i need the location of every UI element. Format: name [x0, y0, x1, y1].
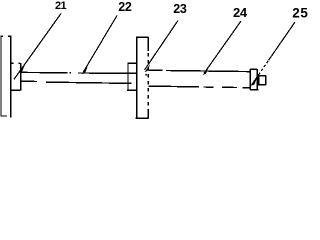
flange 23 right edge lower solid [147, 111, 149, 118]
end collar top edge [250, 68, 257, 70]
shaft 24 bottom edge [149, 86, 251, 88]
arrowhead 24 [203, 67, 209, 75]
arrowhead 25 [251, 77, 257, 85]
plate 21 bottom edge [11, 89, 21, 91]
speckle dot near flange [145, 74, 146, 76]
shaft 22 top edge [21, 71, 136, 74]
hub bottom edge [127, 89, 136, 91]
arrowhead 21 [19, 65, 25, 73]
nut 25 top edge [259, 75, 266, 77]
flange 23 right edge upper solid [147, 37, 149, 51]
wall bottom edge [0, 115, 7, 117]
leader line 23 [145, 21, 178, 70]
wall top tick left [0, 35, 3, 37]
arrowhead 23 [145, 64, 151, 72]
leader line 25 dashed middle segment [259, 60, 269, 75]
flange 23 left edge [136, 37, 138, 119]
svg-text:25: 25 [292, 5, 308, 20]
flange 23 right edge dashed middle [147, 53, 149, 111]
wall left edge [0, 36, 2, 116]
flange 23 bottom edge [136, 117, 149, 119]
nut 25 left edge [258, 76, 260, 85]
end collar bottom edge [250, 89, 259, 91]
svg-text:22: 22 [118, 0, 132, 14]
svg-text:21: 21 [55, 0, 67, 12]
leader line 22 [83, 16, 117, 72]
leader line 21 [14, 14, 61, 80]
hub left edge [127, 63, 129, 90]
arrowhead 22 [82, 66, 88, 74]
shaft 24 top edge [149, 70, 251, 71]
svg-text:24: 24 [233, 5, 248, 20]
flange 23 top edge [136, 36, 149, 38]
end collar right edge [256, 69, 258, 90]
svg-text:23: 23 [173, 2, 187, 16]
leader line 24 [204, 21, 241, 73]
nut 25 bottom edge [257, 84, 266, 86]
shaft 22 bottom edge [21, 81, 131, 83]
leader line 25 lower segment [251, 75, 258, 85]
plate 21 top dots [12, 62, 20, 64]
plate 21 right edge [20, 63, 22, 90]
leader line 25 upper segment [269, 22, 296, 60]
hub top edge [128, 62, 137, 64]
wall top tick right [8, 35, 11, 37]
end collar left edge [249, 69, 251, 90]
nut 25 right edge [265, 76, 267, 85]
wall right edge [10, 36, 12, 117]
